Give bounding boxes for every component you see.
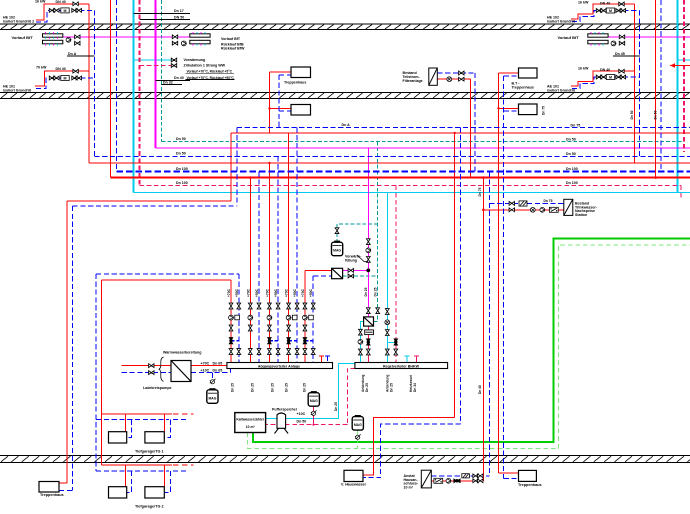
svg-text:Dn 25: Dn 25: [231, 383, 235, 392]
svg-text:Dn 50: Dn 50: [654, 110, 658, 119]
svg-text:Vorlauf +70°C, Rücklauf +5°C: Vorlauf +70°C, Rücklauf +5°C: [187, 69, 233, 73]
svg-text:isoliert Grundriß: isoliert Grundriß: [547, 89, 576, 93]
svg-text:isoliert Grundriß: isoliert Grundriß: [547, 20, 576, 24]
svg-text:+10C: +10C: [201, 368, 210, 372]
svg-text:Dn 25: Dn 25: [374, 287, 378, 296]
svg-text:Tiefgarage/TG 1: Tiefgarage/TG 1: [135, 450, 164, 454]
svg-text:Dn 25: Dn 25: [390, 383, 394, 392]
svg-text:DN 40: DN 40: [56, 67, 66, 71]
svg-text:Vorlauf BfT: Vorlauf BfT: [12, 35, 34, 40]
svg-text:Dn A: Dn A: [68, 52, 77, 56]
svg-text:Vorwärmung: Vorwärmung: [184, 58, 206, 62]
svg-text:10 m³: 10 m³: [246, 425, 256, 429]
svg-text:V. Hauswasser: V. Hauswasser: [341, 483, 367, 487]
svg-text:Filteranlage: Filteranlage: [403, 79, 423, 83]
svg-text:DN 40: DN 40: [600, 2, 610, 6]
svg-text:+50C: +50C: [255, 288, 259, 297]
svg-text:Dn 100: Dn 100: [566, 181, 578, 185]
svg-text:Abgangsverteiler Anlage: Abgangsverteiler Anlage: [258, 364, 300, 368]
svg-text:Treppenhaus: Treppenhaus: [284, 80, 306, 84]
svg-text:+50C: +50C: [274, 288, 278, 297]
svg-text:Zirkulation 1 Strang WW: Zirkulation 1 Strang WW: [184, 64, 226, 68]
svg-text:Dn A: Dn A: [342, 123, 351, 127]
svg-text:füllung: füllung: [345, 258, 357, 262]
svg-text:Rücklauf BfW: Rücklauf BfW: [221, 47, 245, 51]
svg-text:+50C: +50C: [293, 288, 297, 297]
svg-text:Treppenhaus: Treppenhaus: [40, 493, 64, 497]
svg-text:Dn 100: Dn 100: [176, 167, 188, 171]
svg-text:+70C: +70C: [227, 288, 231, 297]
svg-text:Dn 75: Dn 75: [571, 123, 581, 127]
svg-text:Treppenhaus: Treppenhaus: [512, 86, 534, 90]
svg-text:Dn 100: Dn 100: [176, 181, 188, 185]
svg-text:Dn 50: Dn 50: [176, 137, 186, 141]
svg-text:DN 40: DN 40: [56, 0, 66, 4]
svg-text:+50C: +50C: [309, 288, 313, 297]
svg-text:Vorlauf +70°C, Rücklauf +50°C: Vorlauf +70°C, Rücklauf +50°C: [187, 76, 235, 80]
svg-text:Pufferspeicher: Pufferspeicher: [272, 407, 298, 411]
svg-text:Dn 75: Dn 75: [542, 106, 546, 115]
svg-text:70 kW: 70 kW: [36, 66, 47, 70]
svg-text:Dn 25: Dn 25: [364, 287, 368, 296]
svg-text:Dn 32: Dn 32: [163, 81, 173, 85]
svg-text:Regelverteiler BHKW: Regelverteiler BHKW: [383, 364, 420, 368]
svg-text:Dn 65: Dn 65: [213, 362, 223, 366]
svg-text:10 m³: 10 m³: [404, 485, 414, 489]
svg-text:Dn 50: Dn 50: [566, 152, 576, 156]
svg-text:Dn 25: Dn 25: [251, 383, 255, 392]
svg-text:+70C: +70C: [285, 288, 289, 297]
svg-text:16 kW: 16 kW: [578, 0, 589, 4]
svg-text:Dn 17: Dn 17: [174, 9, 184, 13]
svg-text:Dn 45: Dn 45: [615, 52, 625, 56]
svg-text:+70C: +70C: [201, 361, 210, 365]
svg-text:Treppenhaus: Treppenhaus: [518, 483, 542, 487]
svg-text:Dn 40: Dn 40: [174, 76, 184, 80]
svg-text:+70C: +70C: [266, 288, 270, 297]
svg-text:Dn 34: Dn 34: [413, 383, 417, 392]
svg-text:+70C: +70C: [301, 288, 305, 297]
svg-text:Ladekreispumpe: Ladekreispumpe: [143, 386, 172, 390]
svg-text:Dn 75: Dn 75: [478, 187, 482, 196]
svg-text:DN 40: DN 40: [600, 68, 610, 72]
svg-text:DN 50: DN 50: [174, 15, 184, 19]
svg-text:Dn 40: Dn 40: [478, 385, 482, 394]
svg-text:Dn 50: Dn 50: [566, 137, 576, 141]
svg-text:Vorlauf BfT: Vorlauf BfT: [221, 37, 241, 41]
svg-text:isoliert Grundriß: isoliert Grundriß: [3, 89, 32, 93]
svg-text:16 kW: 16 kW: [35, 0, 46, 4]
svg-text:isoliert Grundriß 2: isoliert Grundriß 2: [3, 20, 34, 24]
svg-text:Warmwasserbereitung: Warmwasserbereitung: [163, 351, 201, 355]
svg-text:Dn 50: Dn 50: [630, 110, 634, 119]
svg-text:Vorlauf BfT: Vorlauf BfT: [558, 35, 580, 40]
svg-text:Dn 25: Dn 25: [285, 383, 289, 392]
svg-text:Dn 25: Dn 25: [303, 383, 307, 392]
svg-text:Station: Station: [575, 213, 587, 217]
svg-text:Dn 25: Dn 25: [365, 383, 369, 392]
svg-text:+10C: +10C: [297, 412, 306, 416]
svg-text:Dn 100: Dn 100: [566, 167, 578, 171]
svg-text:+50C: +50C: [235, 288, 239, 297]
svg-text:Tiefgarage/TG 2: Tiefgarage/TG 2: [135, 505, 164, 509]
svg-text:Dn 25: Dn 25: [334, 402, 338, 411]
svg-text:16 kW: 16 kW: [578, 67, 589, 71]
svg-text:Dn 50: Dn 50: [176, 152, 186, 156]
svg-text:Dn 75: Dn 75: [544, 199, 553, 203]
svg-text:+70C: +70C: [247, 288, 251, 297]
svg-text:Dn 25: Dn 25: [271, 383, 275, 392]
svg-text:Dn 65: Dn 65: [213, 369, 223, 373]
svg-text:Kaltwasserzähler: Kaltwasserzähler: [236, 418, 264, 422]
svg-text:Dn 50: Dn 50: [297, 419, 307, 423]
